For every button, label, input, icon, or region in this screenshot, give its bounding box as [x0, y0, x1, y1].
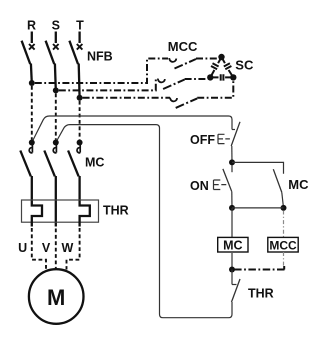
contactor MC pole 2 top dot [53, 140, 59, 146]
pushbutton OFF blade [231, 122, 240, 146]
bus wire C (T phase to SC, dash-dot) [83, 97, 170, 99]
svg-text:U: U [18, 241, 27, 255]
contactor contact MCC-2 hook [158, 79, 165, 83]
wire V drop (dashed) [55, 229, 57, 270]
breaker NFB pole T lower lead [78, 64, 81, 98]
wire W drop (dashed) [67, 228, 80, 270]
breaker NFB pole R lead [31, 32, 33, 44]
motor M circle [29, 269, 84, 324]
wire phase T drop (dashed) [79, 101, 81, 140]
contactor MC pole 2 hook [53, 143, 56, 153]
contactor contact MCC-1 hook [169, 58, 176, 62]
junction dot below MC aux [281, 205, 287, 211]
pushbutton ON upper lead [231, 165, 233, 172]
wire connecting ON and MC aux bottoms [232, 207, 284, 209]
breaker NFB pole T x-mark [77, 44, 83, 50]
contactor MC pole 2 lower lead [55, 176, 57, 227]
capacitor SC bottom side [210, 74, 233, 80]
svg-text:W: W [61, 241, 73, 255]
breaker NFB pole T blade [69, 41, 78, 64]
contactor contact MCC-3 blade [176, 98, 198, 108]
svg-text:T: T [76, 19, 84, 33]
breaker NFB pole S lead [55, 32, 57, 44]
control tap wire 2 (from S pole down left side) [56, 125, 232, 318]
svg-text:ON: ON [190, 179, 209, 193]
contactor MC pole 3 hook [77, 143, 80, 153]
contactor contact MCC-3 hook [170, 98, 177, 102]
junction dot node T [77, 95, 83, 101]
contactor MC pole 1 blade [20, 151, 31, 177]
svg-text:V: V [42, 241, 51, 255]
contactor MC pole 2 blade [44, 151, 55, 177]
svg-text:MCC: MCC [168, 39, 198, 54]
capacitor bank SC bottom-right vertex dot [230, 74, 236, 80]
svg-text:M: M [47, 285, 65, 310]
breaker NFB pole T lead [78, 32, 80, 44]
svg-text:THR: THR [248, 287, 274, 301]
svg-text:MC: MC [288, 177, 309, 192]
contactor contact MCC-2 blade [163, 80, 185, 90]
svg-text:SC: SC [235, 58, 254, 73]
contactor MC pole 3 lower lead [78, 176, 80, 201]
pushbutton ON lower lead [231, 192, 233, 208]
svg-text:S: S [52, 19, 60, 33]
breaker NFB pole R lower lead [30, 64, 33, 84]
svg-text:THR: THR [103, 204, 129, 218]
wire MCC coil to THR junction (dash-dot) [283, 252, 285, 267]
junction dot node S [53, 87, 59, 93]
contactor MC pole 1 hook [29, 143, 32, 153]
breaker NFB pole S lower lead [54, 64, 57, 91]
wire U drop (dashed) [32, 228, 46, 270]
breaker NFB pole S x-mark [53, 44, 59, 50]
contactor MC pole 3 blade [68, 151, 79, 177]
breaker NFB pole S blade [46, 41, 55, 64]
THR trip contact lead [231, 270, 233, 285]
svg-text:R: R [27, 19, 36, 33]
pushbutton OFF lower lead [231, 146, 233, 162]
control tap wire 1 (from R pole to OFF button) [32, 116, 232, 143]
wire MC coil to THR [231, 253, 233, 270]
contactor MC pole 3 top dot [77, 140, 83, 146]
wire to MCC coil [283, 211, 285, 238]
svg-text:MC: MC [223, 238, 242, 252]
thermal relay THR box [22, 200, 99, 222]
auxiliary contact MC lower lead [282, 192, 284, 208]
svg-text:MCC: MCC [269, 238, 297, 252]
bus wire A continuation to SC top [196, 58, 220, 60]
contactor MC pole 1 lower lead [31, 176, 33, 201]
wire phase R drop (dashed) [31, 86, 33, 140]
capacitor bank SC top vertex dot [218, 54, 224, 60]
capacitor SC left side [210, 57, 221, 77]
pushbutton ON actuator [214, 180, 227, 190]
bus wire A (R phase to SC, dash-dot) [35, 59, 168, 84]
bus wire B continuation to SC bottom-left [185, 78, 208, 80]
contactor MC pole 1 top dot [29, 140, 35, 146]
coil MC box [218, 237, 248, 252]
thermal relay THR heater 1 [32, 201, 42, 227]
capacitor bank SC bottom-left vertex dot [207, 74, 213, 80]
pushbutton ON blade [223, 169, 232, 192]
breaker NFB pole R blade [22, 41, 31, 64]
pushbutton OFF actuator [218, 134, 230, 143]
junction dot below ON [229, 205, 235, 211]
coil MCC box [268, 237, 298, 252]
junction dot below OFF [229, 159, 235, 165]
bus wire C continuation to SC bottom-right [197, 80, 233, 98]
wire phase S drop (dashed) [55, 93, 57, 139]
bus wire B (S phase to SC, dash-dot) [59, 79, 157, 90]
auxiliary contact MC blade [273, 169, 282, 192]
wire to MC aux branch [232, 162, 284, 173]
capacitor SC right side [222, 57, 234, 77]
breaker NFB pole R x-mark [29, 44, 35, 50]
svg-text:OFF: OFF [190, 133, 215, 147]
contactor contact MCC-1 blade [175, 59, 197, 69]
svg-text:MC: MC [85, 156, 104, 170]
pushbutton OFF contact tick [232, 129, 235, 131]
wire to MC coil [231, 208, 233, 237]
junction dot node R [29, 80, 35, 86]
THR trip contact tick [232, 284, 237, 286]
thermal relay THR heater 3 [80, 201, 90, 227]
junction dot above THR contact [229, 267, 235, 273]
THR trip contact blade [232, 279, 241, 302]
svg-text:NFB: NFB [87, 50, 113, 64]
